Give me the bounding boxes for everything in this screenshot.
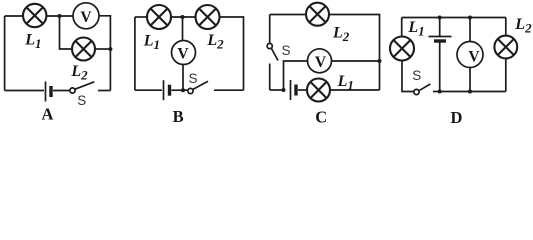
lamp L2 (C)	[306, 3, 329, 26]
voltmeter V (B)	[172, 41, 196, 65]
wire: D right branch upper	[505, 18, 507, 37]
switch S (B)	[188, 88, 193, 93]
switch S (D)	[414, 89, 419, 94]
wire: D left branch upper	[401, 18, 403, 37]
wire: B left side	[134, 17, 136, 90]
wire: battery to node	[172, 89, 189, 91]
wire: battery to switch	[53, 90, 70, 92]
voltmeter V (C)	[308, 49, 332, 73]
wire: lamp L1 to right corner (C)	[330, 89, 380, 91]
wire: lamp L2 to right side down	[220, 17, 244, 90]
wire: voltmeter branch (B)	[182, 17, 184, 41]
svg-text:V: V	[315, 54, 327, 71]
wire: B bottom left	[135, 89, 162, 91]
wire: D right branch lower	[505, 58, 507, 91]
voltmeter V (D)	[457, 42, 483, 68]
wire: D top rail	[402, 17, 506, 19]
wire: C top to lamp L2	[270, 14, 306, 16]
wire: A top-left to lamp L1	[5, 15, 23, 17]
wire: lamp L2 to right side down	[329, 15, 380, 91]
node junction bottom-left (C)	[282, 88, 286, 92]
node junction voltmeter bottom (D)	[468, 90, 472, 94]
wire: battery branch lower (D)	[439, 42, 441, 92]
battery (D)	[429, 36, 452, 38]
svg-text:S: S	[282, 43, 291, 58]
node junction right (A)	[108, 47, 112, 51]
node junction battery bottom (D)	[438, 90, 442, 94]
node junction right (C)	[378, 59, 382, 63]
lamp L2 (B)	[196, 5, 220, 29]
voltmeter V (A)	[73, 3, 99, 29]
wire: battery branch upper (D)	[439, 18, 441, 37]
wire: D bottom rail	[433, 91, 506, 93]
lamp L1 (B)	[147, 5, 171, 29]
wire: battery to lamp L1 (C)	[298, 89, 307, 91]
lamp L1 (C)	[307, 79, 330, 102]
wire: C bottom-left	[270, 89, 282, 91]
wire: lamp L2 to right wire	[95, 48, 110, 50]
lamp L1 (A)	[23, 4, 46, 27]
wire: A bottom left segment	[5, 90, 44, 92]
wire: lamp L1 to node to lamp L2	[171, 16, 196, 18]
wire: branch from node down to lamp L2 (A)	[60, 16, 73, 49]
svg-text:D: D	[451, 108, 463, 124]
battery (C)	[290, 80, 292, 100]
node junction battery top (D)	[438, 16, 442, 20]
lamp L1 (D)	[390, 37, 414, 61]
node junction bottom (B)	[181, 88, 185, 92]
svg-text:S: S	[189, 71, 198, 86]
switch S (C)	[267, 43, 272, 48]
node junction voltmeter top (D)	[468, 16, 472, 20]
switch S (A)	[70, 88, 75, 93]
wire: voltmeter to bottom node (B)	[182, 65, 184, 91]
node junction (A)	[58, 14, 62, 18]
wire: V to right side down	[99, 16, 110, 91]
svg-text:S: S	[77, 93, 86, 108]
wire: voltmeter to right wire (C)	[332, 60, 380, 62]
wire: voltmeter branch up (C)	[284, 61, 308, 90]
svg-text:S: S	[412, 68, 421, 83]
wire: voltmeter branch lower (D)	[469, 68, 471, 92]
wire: C left top segment down to switch	[269, 15, 271, 44]
svg-text:V: V	[177, 45, 189, 62]
wire: A left side	[4, 16, 6, 91]
svg-text:A: A	[42, 105, 54, 124]
battery (A)	[45, 82, 47, 102]
lamp L2 (D)	[494, 36, 517, 59]
wire: D left branch lower to switch	[402, 61, 414, 92]
svg-text:B: B	[173, 107, 184, 124]
svg-text:V: V	[468, 49, 480, 66]
wire: switch to bottom-left corner (C)	[269, 64, 271, 91]
battery (B)	[163, 80, 165, 100]
svg-text:V: V	[80, 9, 92, 26]
wire: B top-left to lamp L1	[135, 16, 147, 18]
lamp L2 (A)	[72, 38, 95, 61]
node junction top (B)	[181, 15, 185, 19]
wire: voltmeter branch upper (D)	[469, 18, 471, 42]
svg-text:C: C	[315, 107, 327, 124]
wire: lamp L1 to node	[46, 15, 73, 17]
